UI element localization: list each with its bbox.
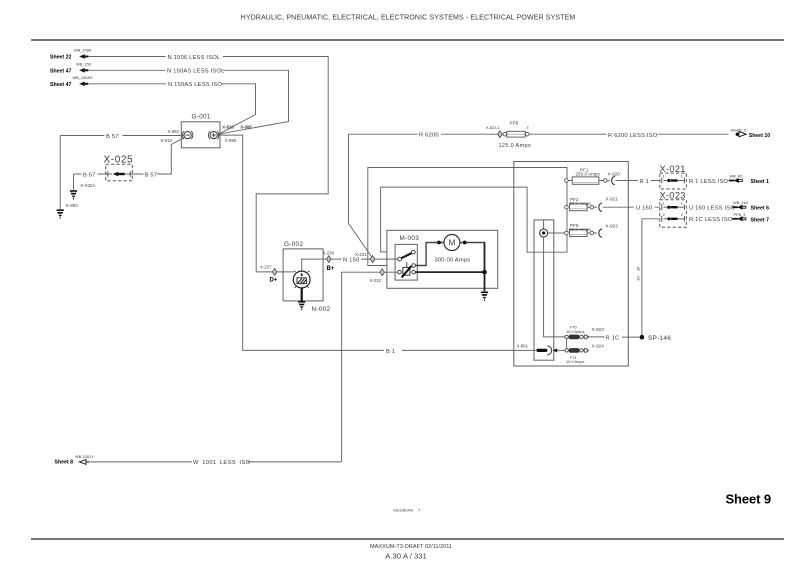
svg-text:D+: D+ — [270, 278, 278, 284]
svg-text:N 150AS LESS ISOL: N 150AS LESS ISOL — [167, 69, 225, 75]
wire R 1C LESS ISO — [642, 217, 733, 223]
connector X-891 — [517, 343, 565, 355]
wire R 1C — [588, 336, 639, 342]
wire R 1 LESS ISO — [689, 179, 729, 185]
svg-text:1: 1 — [663, 200, 665, 205]
svg-text:R 1C LESS ISO: R 1C LESS ISO — [689, 217, 733, 223]
header rule — [31, 39, 784, 41]
svg-text:N-002: N-002 — [312, 306, 331, 313]
svg-text:Sheet 10: Sheet 10 — [749, 133, 770, 139]
power distribution box — [514, 162, 629, 367]
wire U 160 LESS ISO — [689, 206, 735, 212]
svg-text:M: M — [448, 239, 455, 248]
wire R 1 — [616, 179, 660, 185]
starter ground — [481, 292, 488, 301]
svg-text:X-021: X-021 — [660, 164, 686, 174]
fuse PF2 30.0 Amps — [565, 197, 594, 211]
SHEET 47 arrow (WB_150AS) — [50, 75, 93, 88]
svg-text:X-924: X-924 — [592, 343, 605, 348]
wire N 150AS LESS ISOL — [89, 69, 289, 135]
svg-text:B+: B+ — [327, 266, 335, 272]
svg-text:MAXXUM-T3-DRAFT 02/11/2011: MAXXUM-T3-DRAFT 02/11/2011 — [370, 544, 452, 550]
connector X-237 and D+ — [260, 265, 278, 284]
svg-text:R 1: R 1 — [640, 179, 650, 185]
svg-text:WB_160: WB_160 — [733, 200, 749, 205]
stud down feed to F70 — [544, 237, 565, 337]
sheet 7 arrow PFB_3 — [732, 212, 769, 223]
svg-text:250.0 Amps: 250.0 Amps — [576, 172, 601, 177]
sheet 1 arrow WB_R1 — [729, 173, 769, 185]
wire solenoid signal to W 1001 — [342, 272, 398, 462]
svg-text:1D: 1D — [636, 276, 641, 281]
svg-text:W 1001 LESS ISO: W 1001 LESS ISO — [193, 460, 250, 466]
svg-text:Sheet 47: Sheet 47 — [50, 82, 71, 88]
sheet 6 arrow WB_160 — [732, 200, 769, 212]
splice SP-146 — [640, 335, 672, 342]
wire SP-146 riser 30 1D — [636, 219, 642, 335]
wire R 6200 with tap diagonal — [349, 133, 729, 257]
SHEET 47 arrow (WB_150) — [50, 61, 92, 74]
svg-text:Sheet 22: Sheet 22 — [50, 55, 71, 61]
wire A: starter post to fuse bus — [368, 168, 567, 266]
connector X-231 — [355, 252, 375, 263]
svg-text:B 57: B 57 — [83, 172, 96, 178]
svg-text:Sheet 1: Sheet 1 — [751, 179, 770, 185]
B+ internal wire — [302, 259, 327, 271]
ground X-032A — [70, 174, 97, 199]
starter heavy return wire — [415, 243, 484, 292]
svg-text:10.0 Amps: 10.0 Amps — [566, 359, 584, 364]
battery positive terminal — [208, 131, 218, 139]
svg-text:B 1: B 1 — [386, 349, 395, 355]
svg-text:WB_R1: WB_R1 — [730, 173, 743, 178]
svg-text:125.0 Amps: 125.0 Amps — [499, 143, 532, 149]
connector X-232 — [370, 269, 385, 283]
svg-text:HYDRAULIC, PNEUMATIC, ELECTRIC: HYDRAULIC, PNEUMATIC, ELECTRICAL, ELECTR… — [241, 15, 576, 22]
battery negative terminal — [182, 131, 192, 139]
svg-text:X-890: X-890 — [225, 138, 237, 143]
connector X-924 — [584, 343, 604, 352]
svg-text:PFB: PFB — [510, 120, 519, 125]
wire to ground X-893 — [59, 136, 61, 210]
svg-text:Sheet 47: Sheet 47 — [50, 68, 71, 74]
svg-text:N 150: N 150 — [343, 257, 359, 263]
fuse PFB 125.0 Amps — [499, 120, 532, 148]
svg-text:U 160: U 160 — [636, 206, 652, 212]
svg-text:R 1C: R 1C — [606, 336, 620, 342]
svg-text:Sheet 9: Sheet 9 — [725, 492, 771, 507]
svg-text:X-893: X-893 — [66, 203, 79, 208]
starter motor M-003 box — [387, 230, 498, 288]
svg-text:R 1 LESS ISO: R 1 LESS ISO — [689, 179, 729, 185]
svg-text:X-891: X-891 — [517, 343, 529, 348]
sheet 10 arrow MGFB_2 — [731, 127, 771, 139]
svg-text:X-920: X-920 — [608, 171, 621, 176]
svg-text:U 160 LESS ISO: U 160 LESS ISO — [689, 206, 735, 212]
svg-text:7: 7 — [418, 508, 421, 513]
svg-text:Sheet 6: Sheet 6 — [751, 206, 770, 212]
solenoid coil — [402, 262, 412, 277]
svg-text:WB_150: WB_150 — [76, 61, 92, 66]
svg-text:Sheet 7: Sheet 7 — [751, 217, 770, 223]
battery stud terminal — [540, 220, 548, 237]
alternator G-002 — [283, 241, 323, 301]
footer doc id — [370, 544, 452, 561]
wire N 150AS LESS ISO — [89, 82, 256, 135]
svg-text:30.0 Amps: 30.0 Amps — [569, 227, 591, 232]
svg-text:2: 2 — [663, 212, 665, 217]
svg-text:10.0 Amps: 10.0 Amps — [566, 329, 584, 334]
svg-text:PFB_3: PFB_3 — [734, 212, 746, 217]
wire B 57 upper — [60, 134, 184, 140]
svg-text:X-892: X-892 — [168, 129, 180, 134]
svg-text:B 57: B 57 — [106, 134, 119, 140]
alternator machine symbol — [293, 271, 310, 288]
wire N 150 — [331, 257, 398, 263]
svg-text:N 150AS LESS ISO: N 150AS LESS ISO — [168, 82, 222, 88]
svg-text:X-908: X-908 — [240, 125, 252, 130]
wire U 160 — [603, 206, 660, 212]
svg-text:R 6200: R 6200 — [419, 133, 439, 139]
svg-text:X-023: X-023 — [660, 191, 686, 201]
svg-text:N 1006 LESS ISOL: N 1006 LESS ISOL — [168, 55, 221, 61]
connector X-236 — [323, 251, 335, 272]
svg-text:B 57: B 57 — [145, 172, 158, 178]
svg-text:X-237: X-237 — [260, 265, 272, 270]
connector X-921 — [594, 196, 619, 211]
svg-text:WB_1006: WB_1006 — [74, 48, 91, 53]
SHEET 22 arrow — [50, 48, 91, 61]
svg-text:WB-1001Y: WB-1001Y — [75, 454, 94, 459]
wire W 1001 LESS ISO — [89, 460, 342, 466]
connector X-922 (spare) — [594, 223, 619, 237]
wire battery positive to B 1 — [217, 135, 536, 355]
ground X-893 — [57, 203, 79, 219]
junction dot — [482, 270, 487, 275]
connector X-023 — [660, 191, 687, 228]
alternator ground N-002 — [298, 288, 330, 313]
svg-text:X-815: X-815 — [222, 125, 234, 130]
motor M — [437, 235, 467, 251]
stud to PF9 wire — [548, 232, 565, 234]
svg-text:30.0 Amps: 30.0 Amps — [569, 201, 591, 206]
connector X-823-1 — [486, 125, 502, 138]
svg-text:SSG9E009: SSG9E009 — [393, 508, 414, 513]
svg-text:G-002: G-002 — [284, 241, 303, 248]
svg-text:X-923: X-923 — [592, 327, 605, 332]
connector X-021 — [660, 164, 687, 189]
svg-text:X-823-1: X-823-1 — [486, 125, 500, 130]
connector X-025 — [104, 155, 134, 181]
fuse feed bus F70-F71 — [566, 339, 568, 349]
svg-text:30: 30 — [636, 266, 641, 271]
solenoid inner box — [395, 244, 417, 280]
battery G-001 — [181, 114, 220, 148]
footer rule — [31, 538, 784, 540]
svg-text:300.00 Amps: 300.00 Amps — [435, 258, 471, 264]
svg-text:X-921: X-921 — [606, 196, 619, 201]
connector X-920 — [607, 171, 620, 185]
svg-text:X-236: X-236 — [323, 251, 335, 256]
fuse F71 10.0 Amps (spare) — [565, 348, 585, 364]
battery stud housing — [534, 220, 554, 360]
svg-text:Sheet 8: Sheet 8 — [55, 460, 74, 466]
svg-text:X-231: X-231 — [355, 252, 367, 257]
solenoid terminals — [398, 264, 416, 274]
solenoid switch blade — [398, 250, 416, 261]
fuse PF9 30.0 Amps (spare) — [565, 223, 594, 237]
fuse bus vertical — [566, 168, 568, 253]
svg-text:1: 1 — [681, 174, 683, 179]
svg-text:2: 2 — [527, 124, 529, 129]
wire B 57 lower through X-025 — [74, 137, 185, 178]
wire B: blade contact to fuse loop — [381, 187, 567, 252]
svg-text:A.30.A / 331: A.30.A / 331 — [385, 552, 426, 561]
motor feed loop — [415, 243, 484, 266]
svg-text:WB_150AS: WB_150AS — [73, 75, 94, 80]
svg-text:R 6200 LESS ISO: R 6200 LESS ISO — [608, 133, 658, 139]
svg-text:2: 2 — [681, 212, 683, 217]
svg-text:G-001: G-001 — [192, 114, 211, 121]
svg-text:1: 1 — [681, 200, 683, 205]
fuse PF1 250.0 Amps — [565, 167, 607, 184]
svg-text:M-003: M-003 — [400, 235, 420, 242]
fuse F70 10.0 Amps — [565, 325, 585, 340]
svg-text:SP-146: SP-146 — [648, 335, 671, 342]
svg-text:X-032A: X-032A — [80, 183, 96, 188]
svg-text:X-810: X-810 — [161, 138, 173, 143]
svg-text:X-232: X-232 — [370, 278, 382, 283]
sheet 8 arrow WB-1001Y — [55, 454, 95, 466]
svg-text:1: 1 — [663, 174, 665, 179]
svg-text:MGFB_2: MGFB_2 — [731, 127, 747, 132]
connector X-923 — [584, 327, 604, 339]
header title — [241, 15, 576, 22]
wire N 1006 LESS ISOL to D+ — [89, 55, 328, 272]
svg-text:X-922: X-922 — [606, 223, 619, 228]
